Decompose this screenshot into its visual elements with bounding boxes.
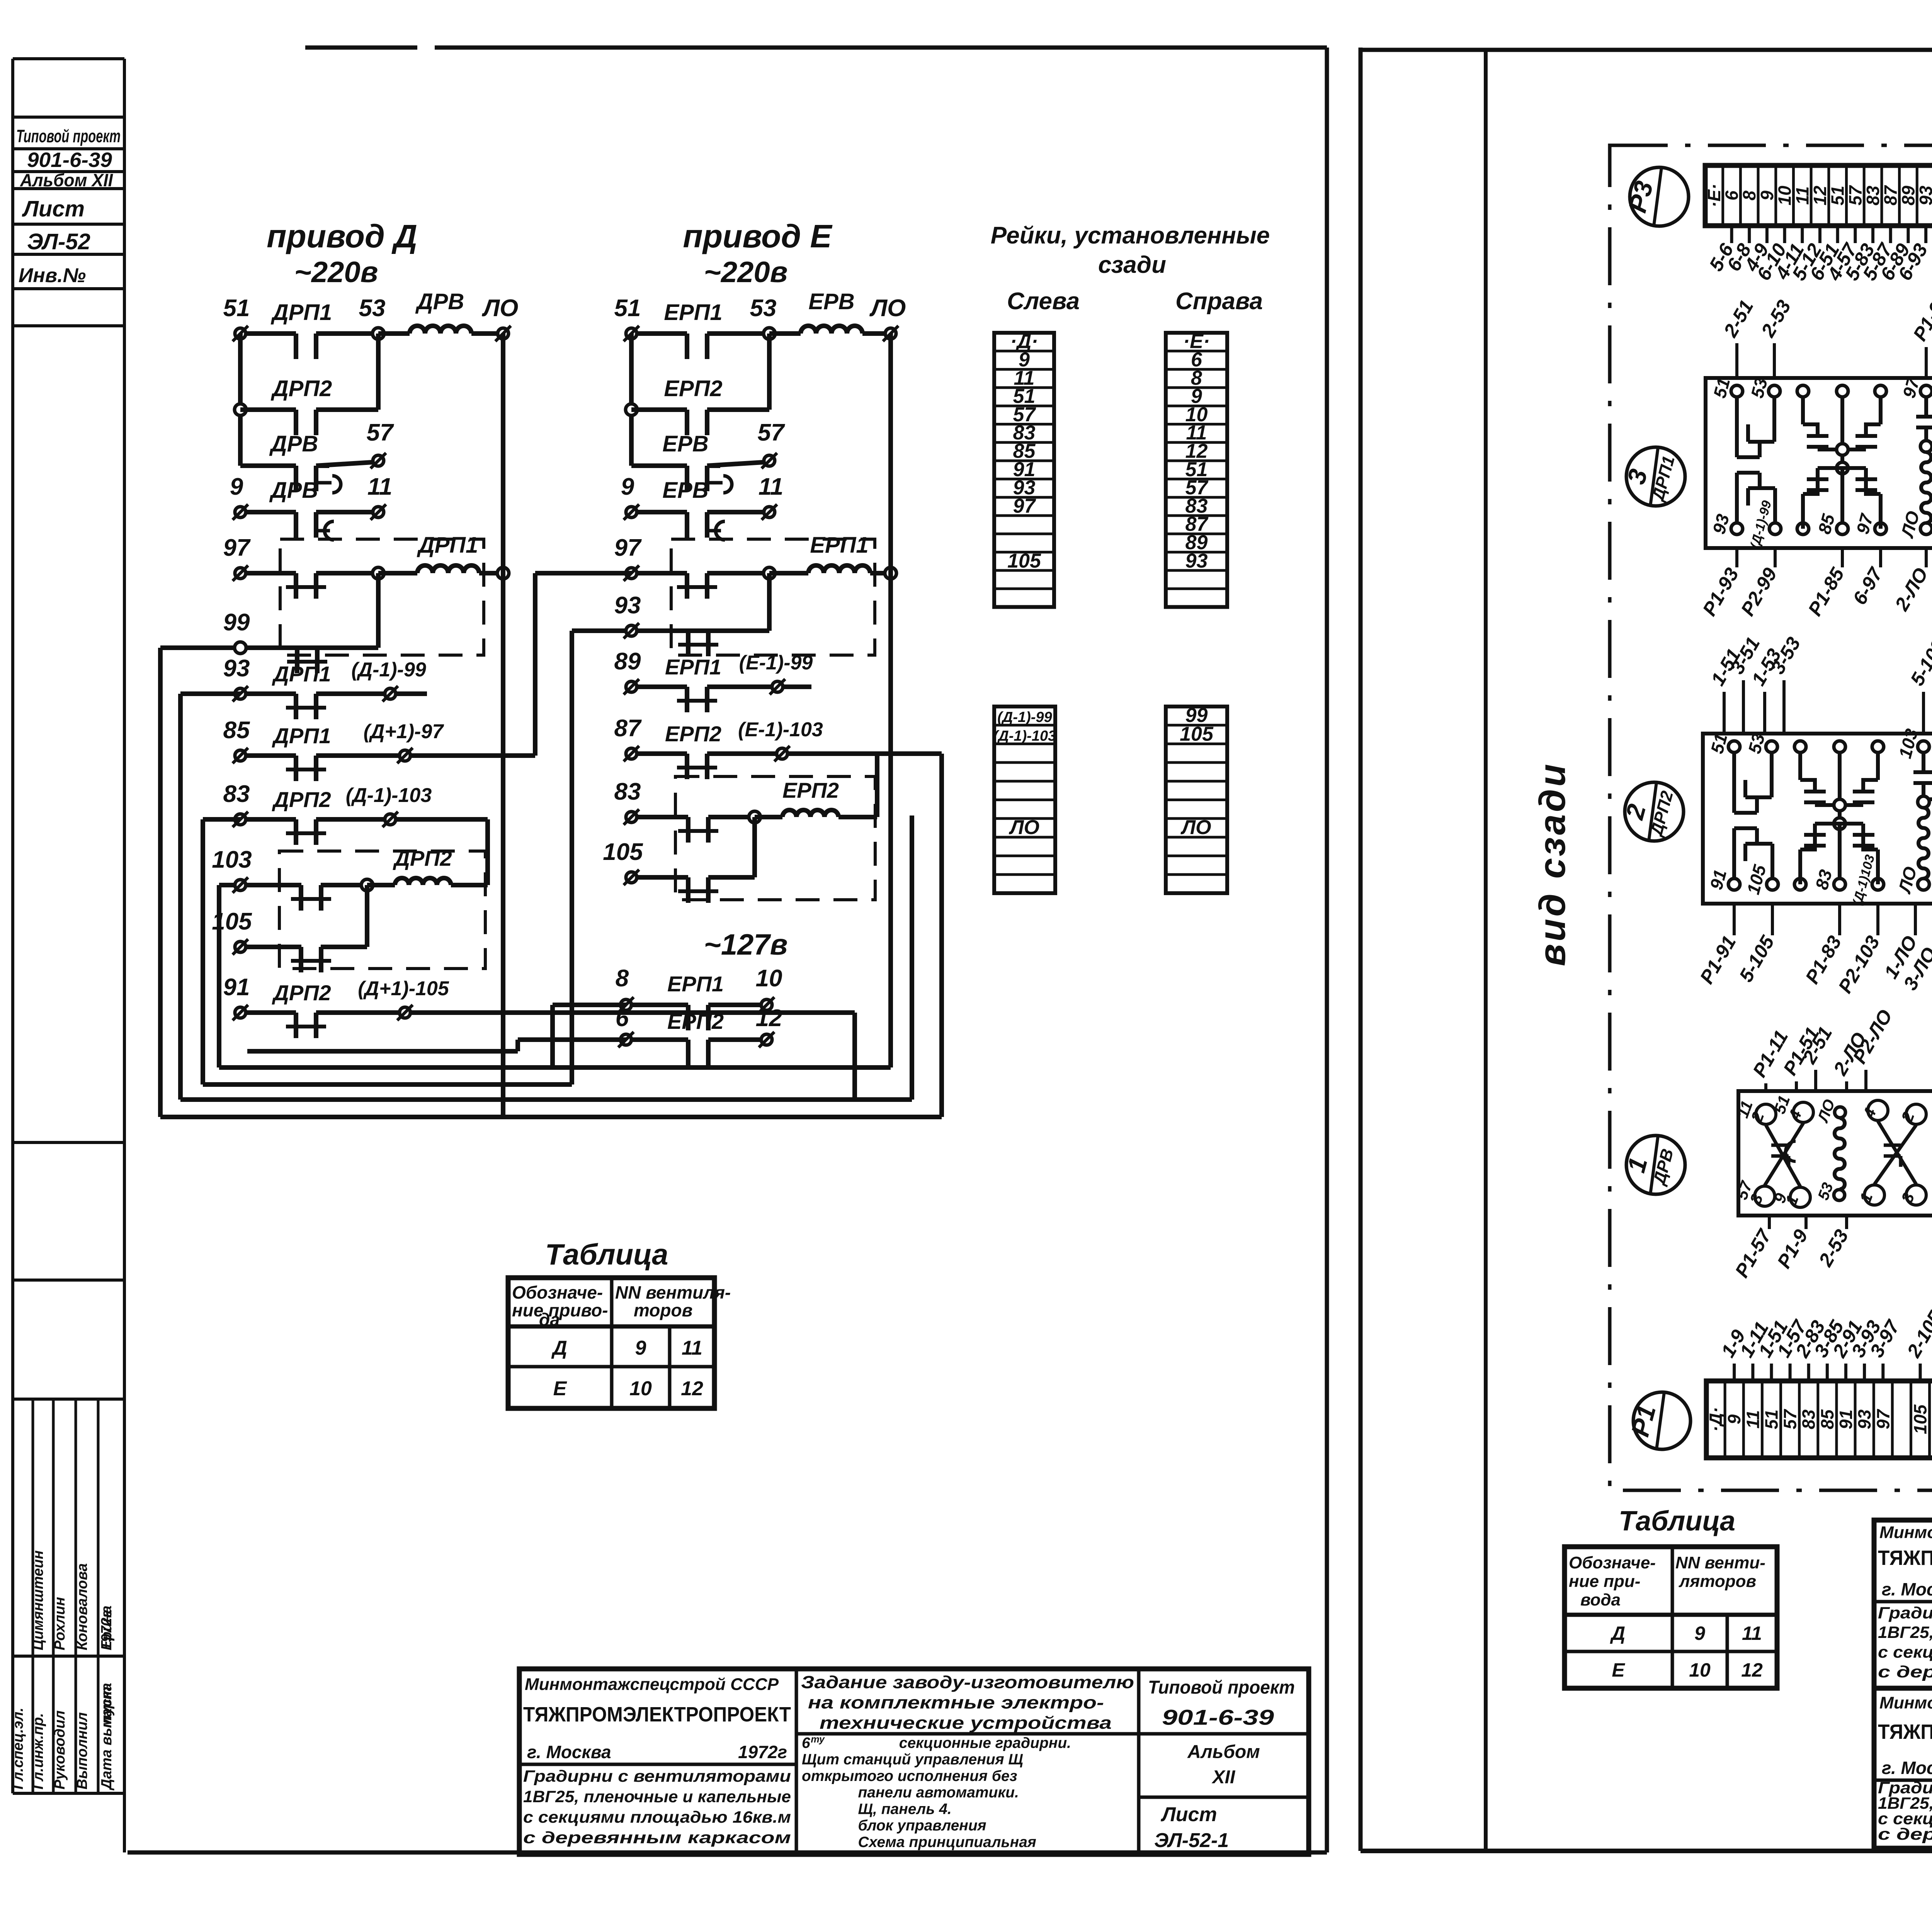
contact ДРП1 row85 bbox=[294, 756, 298, 781]
wire row 87 bbox=[631, 751, 687, 756]
svg-text:83: 83 bbox=[1799, 1410, 1819, 1430]
contact ДРП1 row51 bbox=[294, 334, 298, 359]
svg-text:9: 9 bbox=[1757, 191, 1777, 201]
svg-text:Таблица: Таблица bbox=[545, 1238, 668, 1271]
wire left stub 83 bbox=[203, 817, 240, 822]
svg-text:83: 83 bbox=[614, 778, 641, 805]
leader 2-91 bbox=[1844, 1364, 1847, 1381]
wire row 83 bbox=[240, 817, 296, 822]
svg-text:ТЯЖПРОМЭЛЕКТРОПРОЕКТ: ТЯЖПРОМЭЛЕКТРОПРОЕКТ bbox=[1878, 1720, 1932, 1743]
left title block bbox=[519, 1669, 1309, 1854]
leader 5-83 bbox=[1871, 226, 1874, 243]
svg-text:Руководил: Руководил bbox=[52, 1710, 68, 1789]
leader 6-93 bbox=[1924, 226, 1927, 243]
wire coil-rail bbox=[479, 571, 503, 575]
svg-text:Слева: Слева bbox=[1007, 288, 1080, 315]
svg-text:11: 11 bbox=[759, 473, 783, 500]
svg-text:53: 53 bbox=[750, 295, 777, 322]
svg-text:901-6-39: 901-6-39 bbox=[1162, 1705, 1274, 1729]
relay panel 3 ДРП1 bbox=[1706, 378, 1932, 548]
wire rail 97-93 Е bbox=[767, 573, 772, 631]
svg-text:Щит станций управления Щ: Щит станций управления Щ bbox=[802, 1751, 1023, 1768]
wire loop (Д+1)-97 bbox=[533, 573, 537, 756]
svg-text:~220в: ~220в bbox=[294, 256, 378, 289]
wire 53-coil bbox=[378, 331, 410, 336]
svg-text:Минмонтажспецстрой СССР: Минмонтажспецстрой СССР bbox=[1879, 1523, 1932, 1542]
terminal (Д+1)-97 bbox=[400, 750, 410, 761]
svg-text:Лист: Лист bbox=[1160, 1803, 1217, 1826]
svg-text:57: 57 bbox=[1780, 1409, 1800, 1430]
svg-text:Справа: Справа bbox=[1175, 288, 1263, 315]
svg-text:ЛО: ЛО bbox=[1180, 816, 1211, 839]
wire row 9-11 bbox=[631, 510, 687, 514]
svg-text:ТЯЖПРОМЭЛЕКТРОПРОЕКТ: ТЯЖПРОМЭЛЕКТРОПРОЕКТ bbox=[1878, 1546, 1932, 1570]
contact bar 99 bbox=[295, 648, 299, 673]
svg-text:ЛО: ЛО bbox=[482, 295, 519, 322]
terminal 9 bbox=[626, 507, 637, 518]
svg-text:ЛО: ЛО bbox=[869, 295, 906, 322]
leader 3-97 bbox=[1881, 1364, 1884, 1381]
wire left rail bbox=[238, 334, 243, 466]
svg-text:ДРП2: ДРП2 bbox=[393, 846, 452, 870]
contact ДРВ delay bbox=[294, 466, 298, 491]
svg-text:85: 85 bbox=[1817, 1409, 1837, 1430]
signature divider bbox=[32, 1399, 34, 1793]
svg-text:105: 105 bbox=[1007, 550, 1041, 572]
svg-text:·Е·: ·Е· bbox=[1704, 184, 1724, 207]
svg-text:на комплектные электро-: на комплектные электро- bbox=[808, 1692, 1104, 1712]
svg-text:8: 8 bbox=[616, 965, 629, 992]
node 97 bbox=[764, 567, 775, 579]
panel outline dash-dot frame bbox=[1610, 145, 1932, 1490]
terminal 8 bbox=[621, 999, 631, 1010]
signature divider bbox=[97, 1399, 100, 1793]
svg-text:12: 12 bbox=[1741, 1659, 1763, 1681]
svg-text:ЕРП2: ЕРП2 bbox=[782, 778, 839, 802]
leader 6-51 bbox=[1836, 226, 1839, 243]
leader 4-11 bbox=[1801, 226, 1804, 243]
leader 1-9 bbox=[1733, 1364, 1736, 1381]
svg-text:105: 105 bbox=[1180, 723, 1214, 745]
terminal 91 bbox=[235, 1007, 246, 1018]
svg-text:11: 11 bbox=[367, 473, 392, 500]
stamp line bbox=[13, 324, 124, 327]
svg-text:ДРП1: ДРП1 bbox=[272, 662, 331, 686]
svg-text:панели автоматики.: панели автоматики. bbox=[858, 1784, 1019, 1801]
sheet top border (right page) bbox=[1361, 48, 1932, 52]
svg-text:11: 11 bbox=[1743, 1410, 1763, 1429]
stamp line bbox=[13, 223, 124, 226]
svg-text:11: 11 bbox=[1792, 186, 1812, 205]
leader 6-8 bbox=[1748, 226, 1751, 243]
svg-text:51: 51 bbox=[1828, 186, 1848, 205]
terminal 6 bbox=[621, 1034, 631, 1045]
wire rail 97-99 Д bbox=[376, 573, 381, 648]
wire row 51 Е bbox=[631, 331, 687, 336]
svg-text:Д: Д bbox=[551, 1337, 567, 1359]
node on ЛО rail bbox=[497, 567, 509, 579]
svg-text:89: 89 bbox=[1898, 186, 1918, 206]
svg-text:вид сзади: вид сзади bbox=[1532, 762, 1573, 966]
svg-text:г. Москва: г. Москва bbox=[527, 1742, 611, 1762]
svg-text:ЕРП1: ЕРП1 bbox=[664, 300, 722, 325]
svg-text:85: 85 bbox=[223, 717, 250, 744]
contact bar 97 bbox=[294, 573, 298, 599]
coil ДРВ bbox=[410, 326, 471, 334]
contact ЕРП1 row89 bbox=[685, 687, 689, 712]
leader 6-10 bbox=[1783, 226, 1786, 243]
node rail bbox=[626, 404, 637, 415]
wire 103 node-coil bbox=[367, 883, 395, 887]
svg-text:ЕРП2: ЕРП2 bbox=[664, 376, 722, 401]
svg-text:с деревянным каркасом: с деревянным каркасом bbox=[1878, 1825, 1932, 1844]
wire row 93 bbox=[240, 691, 296, 696]
svg-text:ТЯЖПРОМЭЛЕКТРОПРОЕКТ: ТЯЖПРОМЭЛЕКТРОПРОЕКТ bbox=[523, 1703, 791, 1726]
svg-text:10: 10 bbox=[756, 965, 782, 992]
node 97 bbox=[372, 567, 384, 579]
dashed box ДРП2 bbox=[279, 851, 485, 969]
svg-text:105: 105 bbox=[1910, 1404, 1930, 1434]
svg-text:ДРП1: ДРП1 bbox=[417, 533, 478, 558]
relay circle 2 ДРП2 bbox=[1625, 782, 1684, 841]
svg-text:103: 103 bbox=[212, 846, 252, 873]
svg-text:да: да bbox=[539, 1309, 560, 1330]
dashed box P1 bbox=[280, 539, 484, 655]
svg-text:97: 97 bbox=[614, 535, 642, 561]
svg-text:(Д-1)-99: (Д-1)-99 bbox=[351, 659, 426, 681]
svg-text:9: 9 bbox=[635, 1337, 646, 1359]
stamp line bbox=[13, 1655, 124, 1658]
svg-text:97: 97 bbox=[1873, 1409, 1893, 1430]
svg-text:NN венти-: NN венти- bbox=[1675, 1553, 1765, 1572]
svg-text:Типовой проект: Типовой проект bbox=[1148, 1677, 1295, 1698]
wire row 83Е bbox=[631, 815, 688, 819]
svg-text:93: 93 bbox=[1854, 1410, 1874, 1430]
contact ЕРП2 6 bbox=[686, 1040, 690, 1065]
svg-text:91: 91 bbox=[1836, 1410, 1856, 1429]
terminal 83 bbox=[235, 814, 246, 825]
terminal 105 bbox=[235, 941, 246, 952]
terminal 10 bbox=[761, 999, 772, 1010]
svg-text:Гл.инж.пр.: Гл.инж.пр. bbox=[30, 1713, 46, 1789]
svg-text:ЭЛ-52: ЭЛ-52 bbox=[27, 229, 90, 254]
svg-text:Таблица: Таблица bbox=[1619, 1506, 1735, 1537]
stamp column bbox=[11, 59, 14, 1793]
wire row 57 bbox=[631, 463, 687, 468]
contact ЕРП1 8 bbox=[686, 1005, 690, 1030]
svg-text:Рохлин: Рохлин bbox=[52, 1597, 68, 1650]
wire loop 8Е bbox=[550, 1005, 555, 1067]
wire ЕРП2 coil out bbox=[838, 815, 877, 819]
svg-text:8: 8 bbox=[1739, 191, 1759, 201]
contact ДРП2 row83 bbox=[294, 819, 298, 845]
right page bottom border bbox=[1361, 1849, 1932, 1853]
svg-text:торов: торов bbox=[634, 1300, 692, 1320]
svg-text:93: 93 bbox=[1185, 550, 1208, 572]
table row lines bbox=[508, 1325, 714, 1329]
svg-text:6: 6 bbox=[616, 1005, 629, 1032]
svg-text:89: 89 bbox=[614, 648, 641, 675]
svg-text:ЕРП1: ЕРП1 bbox=[667, 972, 724, 996]
svg-text:Коновалова: Коновалова bbox=[74, 1563, 90, 1650]
rack table Д bbox=[994, 333, 1054, 607]
svg-text:9: 9 bbox=[1694, 1622, 1705, 1644]
svg-text:блок управления: блок управления bbox=[858, 1817, 986, 1834]
svg-text:Градирни с вентиляторами: Градирни с вентиляторами bbox=[523, 1767, 791, 1786]
stamp line bbox=[13, 1279, 124, 1282]
terminal (Е-1)-103 bbox=[777, 748, 787, 759]
svg-text:Гл.спец.эл.: Гл.спец.эл. bbox=[10, 1708, 26, 1789]
svg-text:901-6-39: 901-6-39 bbox=[27, 148, 112, 172]
wire row 99 bbox=[160, 645, 378, 650]
svg-text:NN вентиля-: NN вентиля- bbox=[615, 1282, 731, 1302]
svg-text:г. Москва: г. Москва bbox=[1882, 1758, 1932, 1778]
svg-text:вода: вода bbox=[1580, 1590, 1621, 1609]
wire loop 83Д bbox=[201, 819, 205, 1084]
contact ДРП2 row91 bbox=[294, 1013, 298, 1038]
svg-text:открытого исполнения без: открытого исполнения без bbox=[802, 1768, 1017, 1784]
svg-text:97: 97 bbox=[223, 535, 251, 561]
wire loop 91Д bbox=[852, 1013, 857, 1100]
relay panel 1 ДРВ bbox=[1738, 1091, 1932, 1216]
svg-text:1ВГ25, пленочные и капельные: 1ВГ25, пленочные и капельные bbox=[1878, 1623, 1932, 1642]
svg-text:ЕРП1: ЕРП1 bbox=[810, 533, 868, 558]
wire row 51 Д bbox=[240, 331, 296, 336]
leader 4-9 bbox=[1765, 226, 1769, 243]
svg-text:с секциями площадью 16кв.м: с секциями площадью 16кв.м bbox=[1878, 1643, 1932, 1662]
node rail bbox=[235, 404, 246, 415]
svg-text:Е: Е bbox=[1612, 1659, 1625, 1681]
stamp line bbox=[13, 147, 124, 150]
svg-text:·Д·: ·Д· bbox=[1706, 1407, 1726, 1432]
terminal 51 bbox=[626, 328, 637, 339]
terminal (Е-1)-99 bbox=[772, 681, 783, 692]
stamp line bbox=[13, 1141, 124, 1144]
svg-text:93: 93 bbox=[223, 655, 250, 682]
svg-text:10: 10 bbox=[1775, 186, 1795, 206]
svg-text:12: 12 bbox=[756, 1005, 782, 1032]
svg-text:Минмонтажспецстрой СССР: Минмонтажспецстрой СССР bbox=[1879, 1693, 1932, 1712]
svg-text:87: 87 bbox=[1881, 185, 1901, 206]
leader 3-85 bbox=[1826, 1364, 1829, 1381]
svg-text:6: 6 bbox=[1722, 191, 1742, 201]
svg-text:9: 9 bbox=[1724, 1414, 1744, 1424]
svg-text:9: 9 bbox=[621, 473, 634, 500]
contact ДРП1 row93 bbox=[294, 694, 298, 719]
svg-text:1ВГ25, пленочные и капельные: 1ВГ25, пленочные и капельные bbox=[523, 1788, 791, 1806]
contact bar 105 bbox=[299, 947, 303, 972]
svg-text:ЕРВ: ЕРВ bbox=[808, 289, 854, 314]
svg-text:12: 12 bbox=[681, 1377, 703, 1400]
relay circle 1 ДРВ bbox=[1626, 1136, 1685, 1194]
svg-text:Цимянштейн: Цимянштейн bbox=[30, 1550, 46, 1650]
terminal 57 bbox=[764, 455, 775, 466]
wire 97 node-coil bbox=[769, 571, 808, 575]
terminal (Д+1)-105 bbox=[400, 1007, 410, 1018]
svg-text:секционные градирни.: секционные градирни. bbox=[899, 1735, 1071, 1751]
wire row ЕРП2 bbox=[631, 407, 687, 412]
contact ЕРП2 row87 bbox=[685, 754, 689, 779]
svg-text:ДРП2: ДРП2 bbox=[272, 981, 331, 1005]
svg-text:ЛО: ЛО bbox=[1009, 816, 1039, 839]
svg-text:~220в: ~220в bbox=[704, 256, 787, 289]
wire loop 103Д bbox=[217, 885, 221, 1067]
table frame bbox=[508, 1278, 714, 1408]
terminal strip Р1 bbox=[1706, 1381, 1932, 1458]
svg-text:53: 53 bbox=[359, 295, 386, 322]
wire row 9-11 bbox=[240, 510, 296, 514]
svg-text:10: 10 bbox=[1689, 1659, 1711, 1681]
right page margin line bbox=[1484, 50, 1488, 1851]
terminal (Д-1)-103 bbox=[385, 814, 396, 825]
terminal 87 bbox=[626, 748, 637, 759]
svg-text:технические устройства: технические устройства bbox=[820, 1713, 1112, 1733]
left page bottom border bbox=[128, 1851, 1327, 1855]
svg-text:(Д-1)-99: (Д-1)-99 bbox=[997, 709, 1052, 725]
leader 2-105 bbox=[1919, 1364, 1922, 1381]
leader 2-83 bbox=[1807, 1364, 1810, 1381]
svg-text:(Д-1)-103: (Д-1)-103 bbox=[993, 728, 1056, 744]
svg-text:ДРП1: ДРП1 bbox=[272, 724, 331, 748]
leader 5-12 bbox=[1818, 226, 1821, 243]
contact bar 97 bbox=[685, 573, 689, 599]
leader 4-57 bbox=[1854, 226, 1857, 243]
contact ЕРВ hc bbox=[685, 512, 689, 538]
svg-text:Щ, панель 4.: Щ, панель 4. bbox=[858, 1801, 951, 1817]
coil ЕРП2 83 bbox=[782, 810, 838, 817]
svg-text:с деревянным каркасом: с деревянным каркасом bbox=[523, 1828, 791, 1847]
wire coil-ЛО bbox=[471, 331, 503, 336]
right title block upper bbox=[1874, 1520, 1932, 1688]
svg-text:51: 51 bbox=[1761, 1410, 1781, 1429]
wire row 97 bbox=[631, 571, 687, 575]
coil ЕРВ bbox=[801, 326, 862, 334]
terminal 97 bbox=[626, 568, 637, 579]
terminal 11 bbox=[373, 507, 384, 518]
stamp line bbox=[13, 187, 124, 190]
leader 6-89 bbox=[1906, 226, 1910, 243]
svg-text:ЕРП1: ЕРП1 bbox=[665, 655, 721, 679]
terminal 51 bbox=[235, 328, 246, 339]
svg-text:с секциями площадью 16кв.м: с секциями площадью 16кв.м bbox=[523, 1808, 791, 1827]
svg-text:ЕРВ: ЕРВ bbox=[662, 431, 708, 456]
node 53 bbox=[372, 328, 384, 339]
wire row 85 bbox=[240, 753, 296, 758]
node 83Е bbox=[749, 811, 760, 823]
terminal (Д-1)-99 bbox=[385, 688, 396, 699]
svg-text:Лист: Лист bbox=[22, 196, 85, 221]
svg-text:Задание заводу-изготовителю: Задание заводу-изготовителю bbox=[801, 1672, 1134, 1692]
wire 53-coil bbox=[769, 331, 801, 336]
stamp line bbox=[13, 1398, 124, 1401]
svg-text:ЕРВ: ЕРВ bbox=[662, 478, 708, 503]
left page right border bbox=[1325, 48, 1329, 1852]
relay circle 3 ДРП1 bbox=[1626, 447, 1685, 506]
rack table Д2 bbox=[994, 707, 1055, 893]
svg-text:Обозначе-: Обозначе- bbox=[1569, 1553, 1656, 1572]
terminal ЛО bbox=[885, 328, 896, 339]
svg-text:Типовой проект: Типовой проект bbox=[16, 126, 121, 146]
wire row 8-10 bbox=[626, 1003, 686, 1007]
coil ЕРП1 97 bbox=[808, 565, 870, 573]
coil ДРП2 103 bbox=[395, 878, 451, 885]
svg-text:99: 99 bbox=[223, 609, 250, 636]
terminal 93 bbox=[235, 688, 246, 699]
leader 5-6 bbox=[1730, 226, 1733, 243]
svg-text:11: 11 bbox=[682, 1337, 702, 1359]
svg-text:Минмонтажспецстрой СССР: Минмонтажспецстрой СССР bbox=[525, 1675, 779, 1694]
svg-text:9: 9 bbox=[230, 473, 243, 500]
svg-text:93: 93 bbox=[1916, 186, 1932, 206]
svg-text:(Е-1)-103: (Е-1)-103 bbox=[738, 718, 823, 741]
stamp line bbox=[13, 253, 124, 256]
leader 5-87 bbox=[1889, 226, 1892, 243]
svg-text:ДРВ: ДРВ bbox=[269, 478, 318, 503]
terminal 11 bbox=[764, 507, 775, 518]
svg-text:привод Д: привод Д bbox=[267, 218, 417, 254]
svg-text:6: 6 bbox=[802, 1735, 810, 1751]
wire coil-ЛО bbox=[862, 331, 891, 336]
contact ЕРП2 bbox=[685, 410, 689, 435]
svg-text:57: 57 bbox=[758, 419, 785, 446]
svg-text:1972г: 1972г bbox=[738, 1742, 787, 1762]
svg-text:Альбом: Альбом bbox=[1187, 1742, 1260, 1762]
wire loop 99 bbox=[158, 648, 163, 1117]
stamp line bbox=[13, 170, 124, 173]
svg-text:Альбом XII: Альбом XII bbox=[20, 170, 113, 190]
svg-text:(Е-1)-99: (Е-1)-99 bbox=[739, 652, 813, 674]
wire loop 93Д bbox=[178, 694, 183, 1100]
table col lines bbox=[610, 1278, 614, 1408]
wire coil out bbox=[451, 883, 488, 887]
right title block lower bbox=[1874, 1688, 1932, 1848]
svg-text:Обозначе-: Обозначе- bbox=[512, 1282, 603, 1302]
leader 1-51 bbox=[1770, 1364, 1773, 1381]
node 53 bbox=[764, 328, 775, 339]
terminal 12 bbox=[761, 1034, 772, 1045]
terminal 83Е bbox=[626, 812, 637, 822]
wire loop 6Е bbox=[247, 1049, 518, 1054]
wire 97 node-coil bbox=[378, 571, 417, 575]
wire 83Е node-coil bbox=[755, 815, 782, 819]
coil ДРП1 97 bbox=[417, 565, 479, 573]
svg-text:ДРП1: ДРП1 bbox=[270, 300, 332, 325]
svg-text:1972г: 1972г bbox=[99, 1610, 115, 1650]
wire row 103 bbox=[219, 883, 240, 887]
svg-text:91: 91 bbox=[223, 974, 250, 1001]
dashed box P1 bbox=[671, 539, 875, 655]
wire left rail bbox=[629, 334, 634, 466]
wire coil-rail bbox=[870, 571, 891, 575]
wire ЛО rail Д bbox=[501, 334, 505, 1117]
node 103 bbox=[361, 879, 373, 891]
terminal 89 bbox=[626, 681, 637, 692]
terminal 93Е bbox=[626, 625, 637, 636]
stamp line bbox=[13, 287, 124, 290]
wire row 6-12 bbox=[626, 1037, 686, 1042]
sheet top border (left page) bbox=[305, 46, 417, 50]
wire row 91 bbox=[240, 1010, 296, 1015]
contact ДРП2 bbox=[294, 410, 298, 435]
terminal 9 bbox=[235, 507, 246, 518]
svg-text:12: 12 bbox=[1810, 186, 1830, 206]
svg-text:Е: Е bbox=[553, 1377, 567, 1400]
leader 1-11 bbox=[1751, 1364, 1754, 1381]
strip circle Р1 bbox=[1633, 1392, 1690, 1449]
rack table Е2 bbox=[1166, 707, 1227, 893]
svg-text:сзади: сзади bbox=[1098, 252, 1166, 278]
svg-text:105: 105 bbox=[603, 839, 643, 865]
